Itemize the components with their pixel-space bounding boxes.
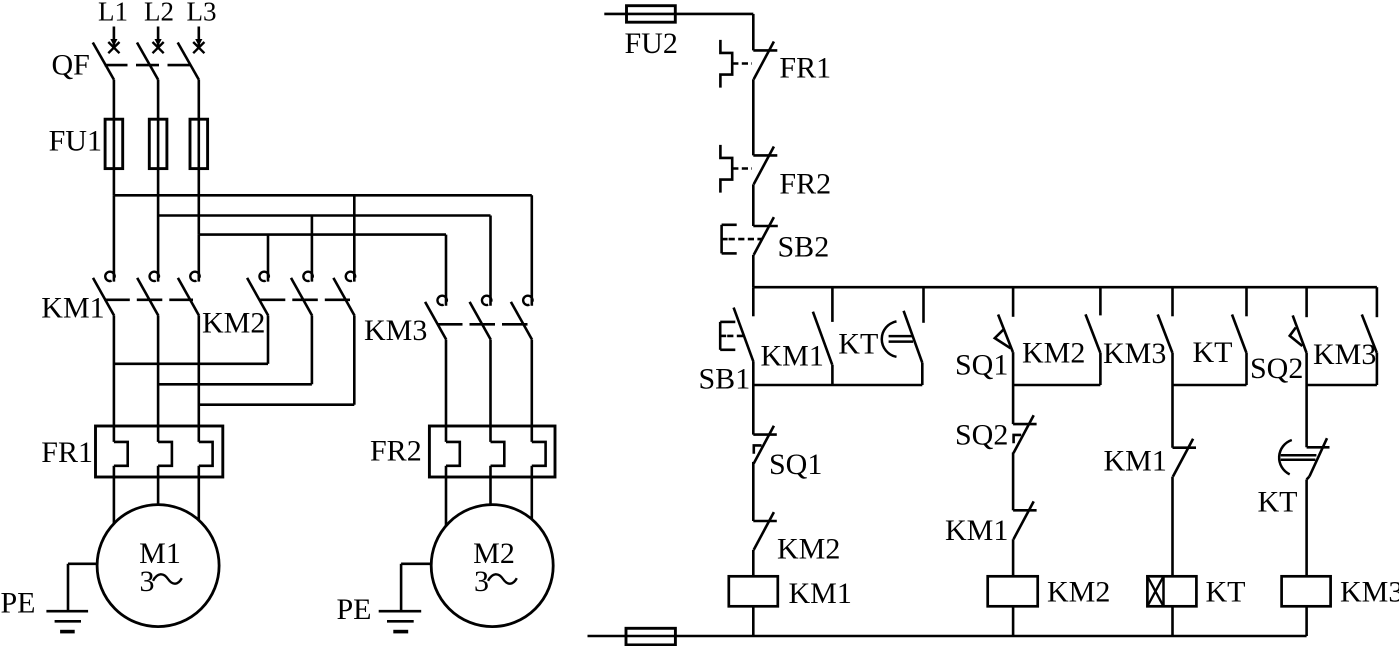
wire feeder to KM3 main contact 1 <box>445 235 448 306</box>
svg-text:FU2: FU2 <box>625 27 678 60</box>
feeder bus wire phase L3 (bottom horizontal) <box>199 233 446 236</box>
wire KM3 main contact 3 down to FR2 <box>530 340 533 442</box>
circuit breaker QF pole 3 blade <box>178 43 199 80</box>
label SB1 <box>699 363 751 396</box>
wire SQ1 NO to SQ2 NC <box>1012 352 1015 424</box>
svg-text:KT: KT <box>1258 486 1298 519</box>
limit switch SQ1 NO contact branch wire <box>1012 287 1015 317</box>
circuit breaker QF pole 1 blade <box>93 43 114 80</box>
wire FR1 heater 3 to motor M1 <box>198 466 201 520</box>
thermal relay FR2 contact actuator <box>720 145 752 193</box>
wire QF pole 3 to fuse FU1 <box>198 80 201 120</box>
fuse FU1 element 1 <box>105 119 123 168</box>
wire SB1 to SQ1 contact <box>752 362 755 435</box>
wire KM1 interlock to KT coil <box>1171 477 1174 577</box>
wire QF pole 1 to fuse FU1 <box>113 80 116 120</box>
time relay KT branch wire <box>922 287 925 323</box>
wire KM2 interlock to KM1 coil <box>752 550 755 576</box>
thermal relay FR2 heater element 1 <box>446 442 460 466</box>
wire KM2 main contact 1 output down <box>267 316 270 364</box>
thermal relay FR1 heater element 2 <box>158 442 172 466</box>
label FU1 <box>49 125 102 158</box>
wire KM1 interlock to KM2 coil <box>1012 539 1015 576</box>
label SQ2 (NO contact) <box>1250 352 1303 385</box>
label M2 <box>473 537 515 570</box>
contactor KM3 main contact 1 <box>425 296 447 340</box>
label KT (coil) <box>1206 576 1246 609</box>
circuit breaker QF linkage dashed line <box>105 64 191 67</box>
limit switch SQ2 lower hook <box>1014 435 1022 443</box>
wire KM3 main contact 1 down to FR2 <box>445 340 448 442</box>
parallel join rail branch 4 <box>1307 384 1377 387</box>
stop pushbutton SB2 NC contact <box>753 217 778 255</box>
fuse FU2 <box>627 6 676 23</box>
contactor KM3 NO contact branch wire <box>1171 287 1174 316</box>
label M1 <box>139 537 181 570</box>
svg-text:FR2: FR2 <box>370 435 422 468</box>
label KT (contact branch 3) <box>1193 336 1233 369</box>
label KM1 (interlock branch 2) <box>945 514 1008 547</box>
label FR2 (contact) <box>779 168 831 201</box>
svg-text:L2: L2 <box>144 0 174 27</box>
contactor KM1 main contact 3 <box>178 272 200 316</box>
wire feeder riser to KM2 main contact 3 <box>353 195 356 281</box>
label FU2 <box>625 27 678 60</box>
contactor KM2 main contact 1 <box>247 272 269 316</box>
svg-text:KM1: KM1 <box>761 340 824 373</box>
fuse FU1 element 3 <box>190 119 208 168</box>
wire FR2 heater 1 to motor M2 <box>445 466 448 526</box>
wire KM3 main contact 2 down to FR2 <box>489 340 492 442</box>
contactor coil KM2 <box>988 576 1038 606</box>
self-holding contact KM1 branch wire <box>831 287 834 322</box>
wire fuse FU1 element 3 down to feeder junction <box>198 169 201 235</box>
wire feeder riser to KM2 main contact 1 <box>267 235 270 282</box>
label SQ1 (NC contact) <box>769 448 822 481</box>
wire joining KM2 output 2 to motor M1 lead 2 <box>158 383 312 386</box>
motor M1 circle <box>97 505 219 627</box>
thermal relay FR2 NC contact <box>753 147 777 185</box>
contactor KM3 main contact 3 <box>511 296 533 340</box>
svg-text:SQ1: SQ1 <box>769 448 822 481</box>
label 3-phase mark of M1 <box>140 565 182 598</box>
thermal relay FR1 heater element 3 <box>199 442 213 466</box>
label KM1 (main contacts) <box>41 292 104 325</box>
wire SB2 to top rail <box>752 255 755 287</box>
wire QF pole 2 to fuse FU1 <box>157 80 160 120</box>
parallel join rail branch 1 <box>753 384 922 387</box>
contactor KM1 linkage dashed line <box>104 298 193 301</box>
wire FR1 heater 2 to motor M1 <box>157 466 160 505</box>
time relay KT delayed contact with seat <box>1307 438 1330 476</box>
label FR1 (contact) <box>779 52 831 85</box>
svg-text:3: 3 <box>140 565 155 598</box>
control bottom rail wire <box>588 635 1307 638</box>
wire KT coil to bottom rail <box>1171 606 1174 636</box>
label KM3 (aux contact branch 3) <box>1103 337 1166 370</box>
node L1 label <box>98 0 128 27</box>
wire KM1 main contact 1 down <box>113 316 116 442</box>
contactor KM2 main contact 2 <box>291 272 313 316</box>
contactor KM1 NO auxiliary contact <box>813 312 832 365</box>
ground PE of motor M1 <box>46 564 98 632</box>
contactor KM3 NO auxiliary contact (branch 3) <box>1158 315 1173 353</box>
time relay KT delay arc symbol <box>882 321 913 356</box>
thermal relay FR1 NC contact <box>753 42 777 80</box>
label KM2 (main contacts) <box>202 307 265 340</box>
wire KM1 aux contact to rail <box>831 365 834 385</box>
svg-text:KT: KT <box>838 328 878 361</box>
circuit breaker QF pole 2 blade <box>137 43 158 80</box>
fuse on bottom rail <box>626 628 675 645</box>
svg-text:L3: L3 <box>187 0 217 27</box>
svg-text:SB1: SB1 <box>699 363 751 396</box>
svg-text:KM1: KM1 <box>1104 445 1167 478</box>
svg-text:FU1: FU1 <box>49 125 102 158</box>
wire SQ2 NO down to KT delayed contact <box>1305 353 1308 448</box>
circuit breaker QF pole 2 incoming lead with cross mark <box>153 27 164 54</box>
wire FR2 contact to SB2 <box>752 184 755 226</box>
wire KM2 main contact 3 output down <box>353 316 356 405</box>
wire feeder to KM1 main contact 2 <box>157 216 160 282</box>
svg-text:KM3: KM3 <box>1313 338 1376 371</box>
wire KT delayed contact to KM3 coil <box>1307 477 1310 577</box>
label KM3 (coil) <box>1340 576 1399 609</box>
contactor KM2 linkage dashed line <box>260 298 350 301</box>
thermal relay FR1 outline box <box>96 426 223 477</box>
wire KT contact to rail <box>921 363 924 385</box>
svg-text:KM1: KM1 <box>945 514 1008 547</box>
wire feeder to KM1 main contact 1 <box>113 195 116 281</box>
svg-text:KM2: KM2 <box>202 307 265 340</box>
wire KM2 coil to bottom rail <box>1012 606 1015 636</box>
wire KM1 main contact 3 down <box>198 316 201 442</box>
parallel join rail branch 3 <box>1173 384 1247 387</box>
contactor KM3 main contact 2 <box>470 296 492 340</box>
svg-text:KM2: KM2 <box>1022 337 1085 370</box>
wire fuse FU1 element 2 down to feeder junction <box>157 169 160 216</box>
wire fuse FU1 element 1 down to feeder junction <box>113 169 116 196</box>
contactor KM3 linkage dashed line <box>437 323 528 326</box>
wire KM2 aux contact to rail <box>1099 353 1102 386</box>
label KM3 (aux contact branch 4) <box>1313 338 1376 371</box>
wire KM1 main contact 2 down <box>157 316 160 442</box>
feeder bus wire phase L1 (top horizontal) <box>114 194 532 197</box>
time relay coil KT <box>1147 576 1196 606</box>
svg-text:KM3: KM3 <box>1103 337 1166 370</box>
contactor KM1 main contact 2 <box>137 272 159 316</box>
label FR2 <box>370 435 422 468</box>
wire KM3 contact to KM1 interlock <box>1171 353 1174 448</box>
circuit breaker QF pole 1 incoming lead with cross mark <box>108 27 119 54</box>
label KM1 (coil) <box>789 577 852 610</box>
limit switch SQ1 NC contact <box>753 426 777 464</box>
label FR1 <box>41 436 93 469</box>
wire KM1 coil to bottom rail <box>752 606 755 636</box>
wire KM2 main contact 2 output down <box>311 316 314 385</box>
svg-text:SQ1: SQ1 <box>955 349 1008 382</box>
self-holding contact KM3 branch wire <box>1376 287 1379 317</box>
contactor KM2 NO auxiliary contact <box>1086 314 1101 352</box>
contactor KM3 NO auxiliary contact (branch 4) <box>1362 315 1377 353</box>
label SQ2 (NC contact) <box>955 419 1008 452</box>
self-holding contact KM2 branch wire <box>1099 287 1102 315</box>
svg-text:KM3: KM3 <box>1340 576 1399 609</box>
wire FR1 heater 1 to motor M1 <box>113 466 116 524</box>
limit switch SQ2 NC contact <box>1013 415 1037 453</box>
time relay KT delay arc symbol (branch 4) <box>1279 440 1316 474</box>
svg-text:FR2: FR2 <box>779 168 831 201</box>
motor M2 circle <box>431 505 553 627</box>
time relay KT NO instantaneous contact <box>1232 315 1246 353</box>
svg-text:FR1: FR1 <box>41 436 93 469</box>
label KM2 (aux contact) <box>1022 337 1085 370</box>
svg-text:PE: PE <box>1 587 36 620</box>
svg-text:PE: PE <box>337 593 372 626</box>
label QF <box>52 49 90 82</box>
svg-text:QF: QF <box>52 49 90 82</box>
svg-text:KT: KT <box>1193 336 1233 369</box>
svg-text:KM2: KM2 <box>777 533 840 566</box>
time relay KT delayed NO contact blade <box>904 311 923 363</box>
circuit breaker QF pole 3 incoming lead with cross mark <box>193 27 204 54</box>
thermal relay FR2 heater element 3 <box>532 442 546 466</box>
label KT (delay contact top) <box>838 328 878 361</box>
control top rail wire <box>753 286 1377 289</box>
svg-text:3: 3 <box>474 565 489 598</box>
wire feeder to KM3 main contact 3 <box>530 195 533 305</box>
thermal relay FR1 heater element 1 <box>114 442 128 466</box>
wire feeder to KM1 main contact 3 <box>198 235 201 282</box>
wire joining KM2 output 1 to motor M1 lead 1 <box>114 362 268 365</box>
wire control supply top <box>604 13 753 16</box>
wire FR2 heater 3 to motor M2 <box>530 466 533 519</box>
wire corner down to FR1 contact <box>752 14 755 51</box>
label PE (M1) <box>1 587 36 620</box>
label PE (M2) <box>337 593 372 626</box>
contactor KM2 NC interlock contact <box>753 512 777 550</box>
node L3 label <box>187 0 217 27</box>
pushbutton SB2 actuator <box>722 225 762 254</box>
wire KT contact to rail branch 3 <box>1245 353 1248 386</box>
thermal relay FR2 heater element 2 <box>491 442 505 466</box>
contactor KM1 NC interlock contact (branch 2) <box>1013 501 1037 539</box>
svg-text:KT: KT <box>1206 576 1246 609</box>
label KM3 (main contacts) <box>364 314 427 347</box>
contactor coil KM3 <box>1282 576 1331 606</box>
wire KM3 aux contact to rail <box>1376 353 1379 386</box>
time relay KT NO contact branch wire <box>1245 287 1248 316</box>
svg-text:FR1: FR1 <box>779 52 831 85</box>
contactor KM1 main contact 1 <box>93 272 115 316</box>
limit switch SQ1 NO contact blade with wedge <box>995 315 1013 353</box>
wire SQ2 NC to KM1 interlock <box>1012 453 1015 511</box>
limit switch SQ2 NO contact branch wire <box>1305 287 1308 317</box>
node L2 label <box>144 0 174 27</box>
label KT (delayed contact branch 4) <box>1258 486 1298 519</box>
parallel join rail branch 2 <box>1013 384 1100 387</box>
pushbutton SB1 actuator <box>720 322 746 350</box>
ground PE of motor M2 <box>379 564 432 632</box>
feeder bus wire phase L2 (middle horizontal) <box>158 214 490 217</box>
wire KM3 coil to bottom rail <box>1305 606 1308 636</box>
svg-text:KM2: KM2 <box>1047 576 1110 609</box>
contactor coil KM1 <box>729 576 778 606</box>
contactor KM2 main contact 3 <box>333 272 355 316</box>
svg-text:L1: L1 <box>98 0 128 27</box>
svg-text:SB2: SB2 <box>778 231 830 264</box>
wire feeder riser to KM2 main contact 2 <box>311 216 314 282</box>
svg-text:KM1: KM1 <box>789 577 852 610</box>
svg-text:KM3: KM3 <box>364 314 427 347</box>
wire joining KM2 output 3 to motor M1 lead 3 <box>199 403 354 406</box>
svg-text:SQ2: SQ2 <box>955 419 1008 452</box>
label KM1 (interlock branch 3) <box>1104 445 1167 478</box>
wire FR1 contact to FR2 contact <box>752 79 755 155</box>
contactor KM1 NC interlock contact (branch 3) <box>1173 439 1197 477</box>
label SQ1 (NO contact) <box>955 349 1008 382</box>
label 3-phase mark of M2 <box>474 565 517 598</box>
label KM2 (interlock) <box>777 533 840 566</box>
label SB2 <box>778 231 830 264</box>
wire feeder to KM3 main contact 2 <box>489 216 492 306</box>
label KM1 (aux contact) <box>761 340 824 373</box>
limit switch SQ2 NO contact blade with wedge <box>1290 315 1307 352</box>
fuse FU1 element 2 <box>149 119 167 168</box>
wire FR2 heater 2 to motor M2 <box>489 466 492 505</box>
wire SQ1 to KM2 interlock <box>752 462 755 521</box>
svg-text:SQ2: SQ2 <box>1250 352 1303 385</box>
thermal relay FR2 outline box <box>429 426 555 477</box>
thermal relay FR1 contact actuator <box>720 40 752 88</box>
start pushbutton SB1 NO contact <box>734 287 754 362</box>
svg-text:KM1: KM1 <box>41 292 104 325</box>
label KM2 (coil) <box>1047 576 1110 609</box>
limit switch SQ1 lower hook <box>754 445 762 453</box>
